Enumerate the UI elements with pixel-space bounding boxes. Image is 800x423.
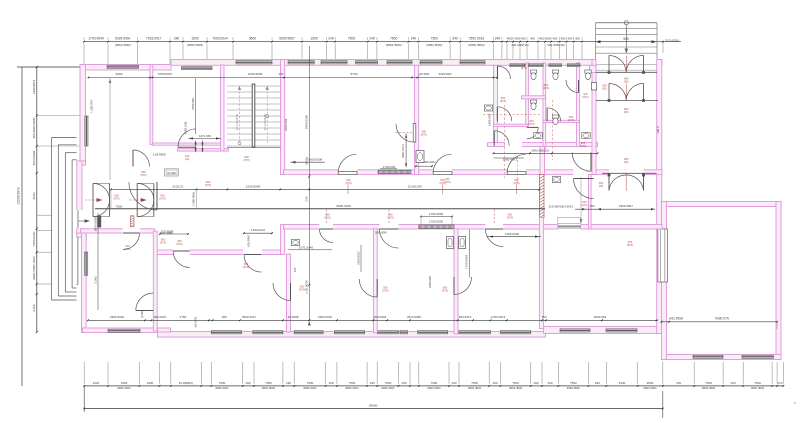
svg-text:1450.095(20): 1450.095(20): [531, 149, 549, 153]
svg-text:(40.99%: (40.99%: [418, 72, 430, 76]
svg-text:9952./800/: 9952./800/: [381, 386, 394, 390]
svg-text:(970): (970): [205, 183, 211, 187]
svg-text:1990.0017: 1990.0017: [357, 251, 361, 265]
svg-text:29600: 29600: [369, 403, 378, 407]
svg-text:400: 400: [575, 37, 580, 41]
svg-text:630: 630: [595, 381, 600, 385]
svg-text:(970): (970): [124, 247, 130, 251]
svg-text:7500: 7500: [349, 381, 356, 385]
svg-text:186: 186: [221, 315, 226, 319]
svg-text:400: 400: [561, 37, 566, 41]
svg-text:(9952./800)/: (9952./800)/: [468, 43, 484, 47]
svg-text:240: 240: [174, 37, 180, 41]
svg-text:3900.074.1: 3900.074.1: [401, 144, 405, 158]
svg-text:3758.0007: 3758.0007: [158, 72, 173, 76]
svg-text:1,99.9999: 1,99.9999: [153, 153, 166, 157]
svg-text:240: 240: [495, 37, 501, 41]
svg-text:1F 4 R(0275): 1F 4 R(0275): [235, 114, 239, 131]
svg-text:(970): (970): [243, 158, 249, 162]
svg-text:7018.0017: 7018.0017: [146, 37, 162, 41]
svg-text:5000.0000: 5000.0000: [94, 217, 98, 232]
svg-text:1220: 1220: [93, 381, 100, 385]
svg-text:(970): (970): [500, 99, 506, 103]
svg-text:3133.21: 3133.21: [172, 184, 183, 188]
svg-text:29x3.9995: 29x3.9995: [407, 315, 421, 319]
svg-text:3600.0008: 3600.0008: [308, 157, 323, 161]
svg-text:400: 400: [521, 37, 526, 41]
svg-text:(970): (970): [140, 173, 146, 177]
svg-text:(970): (970): [507, 216, 513, 220]
svg-text:7500: 7500: [512, 381, 519, 385]
svg-text:900./998.7968/: 900./998.7968/: [32, 118, 36, 139]
svg-text:1600: 1600: [147, 381, 154, 385]
svg-text:7500: 7500: [116, 204, 123, 208]
svg-text:9600: 9600: [249, 37, 257, 41]
svg-text:5430.07A: 5430.07A: [715, 316, 730, 320]
svg-text:1500: 1500: [121, 381, 128, 385]
svg-text:(9952./800)/: (9952./800)/: [187, 43, 203, 47]
svg-text:(9952./800)/: (9952./800)/: [115, 43, 131, 47]
svg-text:700: 700: [676, 381, 681, 385]
svg-text:9952./800/: 9952./800/: [303, 386, 316, 390]
svg-text:3.100: 3.100: [32, 304, 36, 312]
svg-text:1700.0084: 1700.0084: [465, 255, 469, 270]
svg-text:x/5.9991: x/5.9991: [194, 316, 198, 327]
svg-text:1250.0006: 1250.0006: [505, 232, 520, 236]
svg-text:7500: 7500: [390, 37, 398, 41]
svg-text:500./900/: 500./900/: [375, 231, 387, 235]
svg-text:7500: 7500: [431, 381, 438, 385]
svg-text:(90): (90): [602, 87, 607, 91]
svg-text:9952./800/: 9952./800/: [702, 386, 715, 390]
svg-text:7500: 7500: [348, 37, 356, 41]
svg-text:7500: 7500: [754, 381, 761, 385]
svg-text:3500.0017: 3500.0017: [242, 315, 257, 319]
svg-text:1F 4 R(0275): 1F 4 R(0275): [263, 114, 267, 131]
svg-text:9952./800/: 9952./800/: [215, 386, 228, 390]
svg-text:(12): (12): [185, 157, 190, 161]
svg-text:(970): (970): [387, 216, 393, 220]
svg-text:7500: 7500: [265, 381, 272, 385]
svg-text:400: 400: [508, 37, 513, 41]
svg-text:9952./800/: 9952./800/: [345, 386, 358, 390]
svg-text:(90): (90): [599, 184, 604, 188]
svg-text:7500: 7500: [385, 381, 392, 385]
svg-text:240: 240: [369, 37, 375, 41]
svg-text:2990.9993: 2990.9993: [110, 315, 125, 319]
svg-text:400: 400: [546, 37, 551, 41]
svg-text:(970): (970): [582, 95, 588, 99]
svg-text:(970): (970): [324, 216, 330, 220]
svg-text:213.9700: 213.9700: [665, 39, 679, 43]
svg-text:7500: 7500: [431, 37, 439, 41]
svg-text:240: 240: [452, 37, 458, 41]
svg-text:1471.652: 1471.652: [199, 134, 211, 138]
svg-text:240: 240: [328, 37, 334, 41]
svg-text:300.0013: 300.0013: [459, 315, 472, 319]
svg-text:2750: 2750: [180, 315, 187, 319]
svg-text:(970): (970): [543, 86, 549, 90]
svg-text:(90): (90): [624, 110, 629, 114]
svg-text:190: 190: [286, 381, 291, 385]
svg-text:250: 250: [279, 72, 284, 76]
svg-text:219.5004(5)4.9913: 219.5004(5)4.9913: [549, 205, 574, 209]
svg-text:1398.9874: 1398.9874: [32, 79, 36, 94]
svg-text:190: 190: [492, 381, 497, 385]
svg-text:(90): (90): [624, 80, 629, 84]
svg-text:(970): (970): [444, 180, 450, 184]
svg-text:190: 190: [451, 381, 456, 385]
svg-text:3000: 3000: [32, 192, 36, 199]
svg-text:190: 190: [328, 381, 333, 385]
svg-text:1450.00x2: 1450.00x2: [251, 228, 265, 232]
svg-text:(970): (970): [299, 288, 305, 292]
svg-text:9952./800/: 9952./800/: [751, 386, 764, 390]
svg-text:(970): (970): [442, 289, 448, 293]
svg-text:L300.97A: L300.97A: [90, 100, 94, 113]
svg-text:6400.0295: 6400.0295: [305, 115, 309, 130]
svg-text:515.9998: 515.9998: [161, 230, 174, 234]
svg-text:2.092: 2.092: [94, 276, 98, 284]
svg-text:1300.000x: 1300.000x: [422, 160, 436, 164]
svg-text:190: 190: [401, 381, 406, 385]
svg-text:190: 190: [245, 381, 250, 385]
svg-text:w31.99x8: w31.99x8: [669, 316, 683, 320]
svg-text:1500: 1500: [191, 37, 199, 41]
svg-text:7500.0016: 7500.0016: [469, 37, 485, 41]
svg-text:9952./800/: 9952./800/: [509, 386, 522, 390]
svg-text:160: 160: [547, 381, 552, 385]
svg-text:9952./800/: 9952./800/: [643, 386, 656, 390]
svg-text:7500: 7500: [705, 381, 712, 385]
svg-text:3600.(39): 3600.(39): [184, 122, 188, 135]
svg-text:5430: 5430: [619, 381, 626, 385]
svg-text:400: 400: [515, 37, 520, 41]
svg-text:5099.9997: 5099.9997: [279, 37, 295, 41]
svg-text:(2100): (2100): [140, 310, 144, 318]
svg-text:1,499.999x: 1,499.999x: [192, 191, 196, 205]
svg-text:9500./7950.-800/: 9500./7950.-800/: [32, 256, 36, 280]
svg-text:7003.00x4: 7003.00x4: [212, 37, 228, 41]
svg-text:1080.805: 1080.805: [428, 276, 432, 288]
svg-text:±0.000: ±0.000: [167, 171, 176, 175]
svg-text:(970): (970): [581, 203, 587, 207]
svg-text:w750.0013: w750.0013: [491, 315, 506, 319]
svg-text:1700.0005: 1700.0005: [429, 219, 444, 223]
svg-text:3600: 3600: [116, 72, 123, 76]
svg-text:7500: 7500: [307, 381, 314, 385]
svg-text:(9952./800)/: (9952./800)/: [386, 43, 402, 47]
svg-text:190: 190: [370, 381, 375, 385]
svg-text:300.0006: 300.0006: [374, 315, 387, 319]
svg-text:2199.9964: 2199.9964: [246, 184, 261, 188]
svg-text:6750: 6750: [351, 72, 358, 76]
svg-text:190: 190: [730, 381, 735, 385]
svg-text:(90): (90): [624, 160, 629, 164]
svg-text:(970): (970): [160, 241, 166, 245]
svg-text:(970): (970): [568, 118, 574, 122]
svg-text:9500: 9500: [647, 381, 654, 385]
svg-text:1700.9949: 1700.9949: [88, 37, 104, 41]
svg-text:400: 400: [553, 37, 558, 41]
svg-text:32.9998: 32.9998: [288, 315, 299, 319]
svg-text:1750.0005: 1750.0005: [429, 212, 444, 216]
svg-text:(970): (970): [243, 265, 249, 269]
svg-text:150: 150: [293, 267, 297, 272]
svg-text:400: 400: [530, 37, 535, 41]
svg-text:150: 150: [590, 204, 595, 208]
svg-text:12160.057: 12160.057: [408, 184, 423, 188]
svg-text:600./900/: 600./900/: [247, 235, 251, 247]
svg-text:17A: 17A: [777, 381, 782, 385]
svg-text:5x99.999x: 5x99.999x: [115, 37, 131, 41]
svg-text:12299.997x: 12299.997x: [17, 187, 21, 205]
svg-text:5299.992: 5299.992: [594, 315, 607, 319]
svg-text:9952./800/: 9952./800/: [567, 386, 580, 390]
svg-text:240: 240: [411, 37, 417, 41]
svg-text:400./15B/(19): 400./15B/(19): [547, 43, 565, 47]
svg-text:3600.090: 3600.090: [191, 98, 195, 110]
svg-text:(970): (970): [421, 133, 427, 137]
svg-text:7500: 7500: [219, 381, 226, 385]
svg-text:(970): (970): [382, 289, 388, 293]
svg-text:400./290/(15): 400./290/(15): [511, 43, 528, 47]
svg-text:(970): (970): [159, 197, 165, 201]
svg-text:(970): (970): [627, 243, 633, 247]
svg-text:9952./800/: 9952./800/: [262, 386, 275, 390]
svg-text:9952./800/: 9952./800/: [117, 386, 130, 390]
svg-text:7500: 7500: [471, 381, 478, 385]
svg-text:1999.9997: 1999.9997: [619, 204, 634, 208]
svg-text:(970): (970): [345, 181, 351, 185]
svg-text:9600.0016: 9600.0016: [336, 204, 351, 208]
svg-text:190: 190: [533, 381, 538, 385]
svg-text:5004.9995: 5004.9995: [32, 150, 36, 165]
svg-text:7500: 7500: [570, 381, 577, 385]
svg-text:4300.0015: 4300.0015: [318, 315, 333, 319]
svg-text:(9952./800)/: (9952./800)/: [426, 43, 442, 47]
svg-text:(970): (970): [176, 242, 182, 246]
svg-text:L400.095: L400.095: [488, 113, 492, 126]
svg-text:(970): (970): [580, 144, 586, 148]
svg-text:(970): (970): [521, 66, 527, 70]
svg-text:750: 750: [541, 315, 546, 319]
svg-text:(970): (970): [113, 197, 119, 201]
svg-text:7900.0000: 7900.0000: [32, 231, 36, 246]
svg-text:2,40: 2,40: [305, 196, 309, 202]
svg-text:300.0007: 300.0007: [154, 315, 167, 319]
svg-text:x.60.9026: x.60.9026: [305, 280, 309, 294]
svg-text:3x99.99%: 3x99.99%: [438, 72, 452, 76]
svg-text:400: 400: [568, 37, 573, 41]
svg-text:9952./800/: 9952./800/: [427, 386, 440, 390]
svg-text:5x.9998(x): 5x.9998(x): [179, 381, 193, 385]
svg-text:6400.039: 6400.039: [284, 118, 288, 131]
svg-text:x00.5: x00.5: [656, 126, 660, 134]
svg-text:1500: 1500: [310, 37, 318, 41]
svg-text:400: 400: [539, 37, 544, 41]
svg-text:9952./800/: 9952./800/: [468, 386, 481, 390]
svg-text:1071.5x40: 1071.5x40: [299, 246, 313, 250]
svg-text:1700.000: 1700.000: [383, 165, 396, 169]
svg-text:(970): (970): [528, 122, 534, 126]
svg-text:2199.9996: 2199.9996: [248, 72, 263, 76]
